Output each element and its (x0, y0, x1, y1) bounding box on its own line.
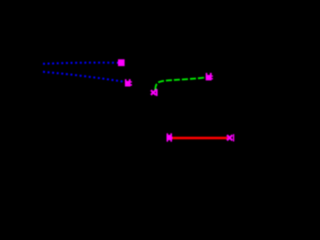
blue dotted curve (upper) (43, 63, 119, 64)
red solid segment (172, 137, 229, 139)
marker B: square+star at end of lower blue curve (125, 79, 132, 86)
marker C: X with cap at left end of green curve (151, 89, 158, 96)
blue dotted curve (lower) (43, 72, 128, 83)
marker D: square+star at right end of green curve (206, 73, 213, 81)
marker F: X with cap at right end of red segment (227, 134, 234, 141)
marker A: filled square at end of upper blue curve (118, 59, 125, 66)
marker E: X with twin caps at left end of red segment (167, 133, 172, 141)
green dashed curve (155, 77, 206, 89)
